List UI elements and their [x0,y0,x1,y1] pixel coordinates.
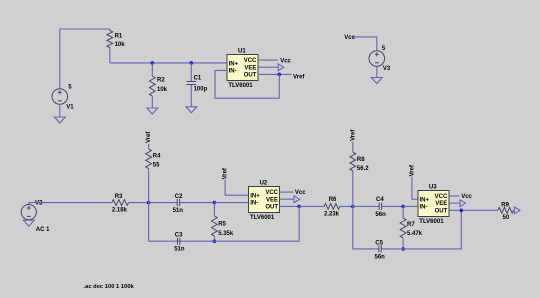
svg-text:TLV6001: TLV6001 [419,219,444,225]
ground flag U3 VEE [460,200,466,207]
svg-text:VCC: VCC [244,58,257,64]
svg-text:51n: 51n [174,247,185,253]
svg-text:10k: 10k [157,87,168,93]
junction U3 OUT [460,209,464,213]
resistor R2 10k [151,63,153,108]
junction R5 bottom [213,239,217,243]
svg-text:R4: R4 [153,153,161,159]
svg-text:AC 1: AC 1 [36,227,50,233]
svg-text:VCC: VCC [265,190,278,196]
voltage source V1 (5V) [52,84,74,110]
svg-text:R1: R1 [115,33,123,39]
svg-text:U1: U1 [238,48,246,54]
svg-text:V1: V1 [66,104,74,110]
svg-text:V3: V3 [383,66,391,72]
junction R2 top [151,61,155,65]
wire U1 OUT to Vref [258,73,292,75]
svg-text:OUT: OUT [244,73,257,79]
svg-text:R5: R5 [218,222,226,228]
junction C2-R5-IN- node [213,201,217,205]
svg-text:5.35k: 5.35k [218,231,234,237]
capacitor C2 51n [149,202,215,204]
svg-text:R3: R3 [115,194,123,200]
svg-text:Vref: Vref [293,74,305,80]
ground flag U2 VEE [294,196,300,203]
svg-text:Vcc: Vcc [461,194,472,200]
svg-text:Vcc: Vcc [280,58,291,64]
wire U3 VEE [449,202,460,204]
svg-text:VEE: VEE [435,201,447,207]
wire U1 feedback OUT to IN- [215,70,279,98]
svg-text:IN-: IN- [250,201,258,207]
ground R2 [147,108,158,114]
svg-text:2.18k: 2.18k [112,208,128,214]
svg-text:5: 5 [68,84,72,90]
wire U2 VCC [280,191,294,193]
resistor R8 56.2 [352,142,354,207]
resistor R6 2.23k [299,205,353,207]
wire V1+ to R1 top [60,29,110,89]
junction node B stage3 [351,205,355,209]
svg-text:55: 55 [153,162,160,168]
svg-text:Vcc: Vcc [344,35,355,41]
wire bottom rail to U3 OUT [403,210,461,249]
svg-text:OUT: OUT [265,205,278,211]
svg-text:2.23k: 2.23k [324,211,340,217]
wire U2 VEE [280,198,294,200]
resistor R7 5.47k [402,206,404,249]
capacitor C4 56n [353,205,403,207]
wire V3- down [376,66,378,77]
ground V1 [54,117,65,123]
wire U1 VEE [258,66,278,68]
resistor R4 55 [148,144,150,203]
op-amp U2 TLV6001 [249,180,280,221]
junction C1 top [190,61,194,65]
svg-text:U2: U2 [260,180,268,186]
wire Vref to U3 IN+ [412,177,418,200]
capacitor C3 51n [149,240,215,242]
svg-text:C1: C1 [194,75,202,81]
resistor R5 5.35k [213,203,215,242]
wire V1- down [59,104,61,117]
svg-text:VEE: VEE [244,65,256,71]
wire node to U3 IN- [403,205,418,207]
svg-text:U3: U3 [429,184,437,190]
capacitor C1 100p [190,63,192,107]
svg-text:TLV6001: TLV6001 [228,83,253,89]
svg-text:R9: R9 [501,203,509,209]
svg-text:R2: R2 [157,78,165,84]
svg-text:R8: R8 [357,157,365,163]
resistor R9 50 [498,209,514,211]
svg-text:IN+: IN+ [229,61,239,67]
wire U3 OUT to R9 [449,209,498,211]
svg-text:IN+: IN+ [250,193,260,199]
wire Vref to U2 IN+ [225,180,249,196]
wire node Vdiv rail to U1 IN+ [110,62,227,64]
svg-text:IN+: IN+ [420,197,430,203]
resistor R3 2.18k [112,202,149,204]
svg-text:IN-: IN- [229,69,237,75]
svg-text:C5: C5 [375,240,383,246]
svg-text:Vref: Vref [223,167,229,179]
op-amp U1 TLV6001 [227,48,258,89]
wire node to U2 IN- [214,202,248,204]
svg-text:C2: C2 [175,194,183,200]
wire Vcc to V3+ [352,37,376,51]
wire U1 VCC [258,59,278,61]
ground flag U1 VEE [278,64,284,71]
junction U2 OUT [297,205,301,209]
svg-text:Vref: Vref [410,164,416,176]
wire U3 VCC [449,195,460,197]
ground flag R9 end [514,207,520,214]
svg-text:VCC: VCC [435,194,448,200]
svg-text:V2: V2 [35,201,43,207]
svg-text:10k: 10k [115,42,126,48]
svg-text:Vref: Vref [146,131,152,143]
svg-text:R6: R6 [329,197,337,203]
svg-text:5: 5 [382,46,386,52]
voltage source V3 (5V) [369,46,391,72]
resistor R1 10k [109,29,111,63]
svg-text:56n: 56n [375,212,386,218]
ground V2 [23,220,34,226]
wire U2 OUT [280,205,300,207]
svg-text:.ac dec 100 1 100k: .ac dec 100 1 100k [84,284,135,290]
svg-text:OUT: OUT [435,208,448,214]
voltage source V2 (AC 1) [21,205,36,220]
svg-text:5.47k: 5.47k [407,231,423,237]
svg-text:Vref: Vref [351,129,357,141]
svg-text:VEE: VEE [266,197,278,203]
wire bottom rail up to node A [148,203,150,242]
wire U2 OUT down to bottom rail [214,206,299,241]
junction R7 bottom [401,247,405,251]
svg-text:IN-: IN- [420,205,428,211]
junction C4-R7-IN- node [401,205,405,209]
svg-text:TLV6001: TLV6001 [250,215,275,221]
ground C1 [186,107,197,113]
svg-text:56n: 56n [375,254,386,260]
wire node B down [352,206,354,249]
svg-text:R7: R7 [407,222,415,228]
capacitor C5 56n [353,248,403,250]
junction U1 OUT [278,73,282,77]
wire V2 to R3 [29,203,112,205]
svg-text:50: 50 [503,215,510,221]
svg-text:C3: C3 [175,232,183,238]
junction node A stage2 [147,201,151,205]
svg-text:C4: C4 [376,197,384,203]
svg-text:100p: 100p [194,86,208,92]
svg-text:51n: 51n [173,208,184,214]
ground V3 [371,78,382,84]
op-amp U3 TLV6001 [418,184,449,225]
svg-text:Vcc: Vcc [295,190,306,196]
svg-text:56.2: 56.2 [357,166,369,172]
